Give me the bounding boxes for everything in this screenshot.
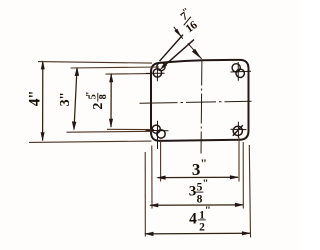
hole bottom-left crosshair xyxy=(146,121,169,149)
horizontal centerline xyxy=(140,101,252,103)
extension 4-1/2 right xyxy=(249,145,250,238)
hole top-left crosshair xyxy=(146,68,165,81)
svg-text:4": 4" xyxy=(26,91,43,107)
hole bottom-right crosshair xyxy=(231,122,247,138)
label 4in xyxy=(26,91,43,107)
svg-text:": " xyxy=(85,92,96,97)
dimension line 3in bottom xyxy=(158,176,239,178)
extension BL hole down xyxy=(160,140,162,182)
hole top-left circle xyxy=(153,69,161,77)
label 2-5/8 xyxy=(85,92,109,110)
dimension line 3in left xyxy=(74,68,77,130)
vertical centerline xyxy=(200,60,203,156)
extension BR hole down xyxy=(238,138,240,182)
hole bottom-right slash xyxy=(233,125,243,136)
svg-text:2: 2 xyxy=(199,222,205,234)
svg-text:4: 4 xyxy=(189,211,197,228)
svg-text:3: 3 xyxy=(189,184,196,200)
svg-text:": " xyxy=(205,205,211,217)
extension line 3in top row xyxy=(71,67,160,68)
svg-text:": " xyxy=(202,178,208,190)
hole top-right slot circles xyxy=(232,64,240,72)
svg-text:3: 3 xyxy=(192,160,200,179)
dimension line 4in xyxy=(42,62,44,141)
svg-text:3": 3" xyxy=(58,92,73,106)
extension line 2-5/8 bottom xyxy=(107,128,154,130)
leader tangent line A xyxy=(160,35,184,62)
extension 3-5/8 right xyxy=(242,142,244,209)
7/16 dim arrow upper xyxy=(174,27,183,39)
dimension line 3-5/8 xyxy=(150,204,243,206)
extension 4-1/2 left xyxy=(144,152,146,237)
svg-text:8: 8 xyxy=(98,94,109,99)
extension line bottom edge to 4in xyxy=(29,141,152,142)
extension 3-5/8 left xyxy=(151,146,153,209)
hole bottom-right circle xyxy=(233,126,242,135)
dimension line 4-1/2 xyxy=(146,232,251,235)
extension line 2-5/8 top xyxy=(106,73,151,76)
extension line 3in bottom row xyxy=(67,130,153,133)
hole bottom-left slot circles xyxy=(152,125,160,133)
svg-text:": " xyxy=(200,156,206,170)
svg-text:2: 2 xyxy=(91,103,106,110)
extension line top edge to 4in xyxy=(38,62,152,64)
dimension line 2-5/8 xyxy=(110,74,112,127)
svg-text:8: 8 xyxy=(197,194,203,206)
7/16 dim arrow lower to centerline junction xyxy=(188,43,202,59)
hole top-left slot upper circle xyxy=(157,63,165,71)
leader line B with arrow at hole xyxy=(163,40,195,68)
label 7/16 xyxy=(175,6,201,35)
hole top-right crosshair xyxy=(231,62,252,81)
label 3in left xyxy=(58,92,73,106)
plate outline xyxy=(151,60,249,141)
